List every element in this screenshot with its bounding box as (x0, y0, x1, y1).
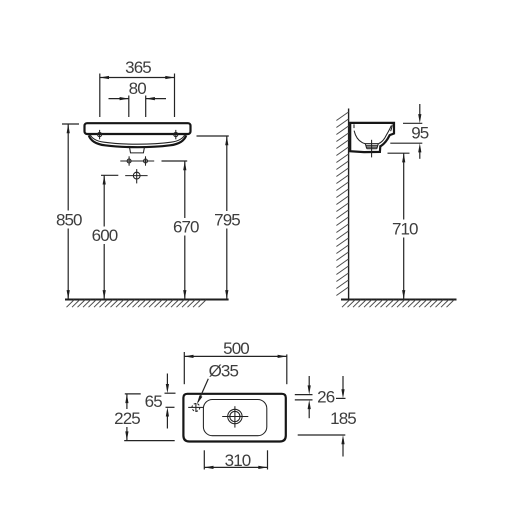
dimension 500 (184, 339, 286, 384)
left fixing hole (front) (98, 130, 102, 139)
svg-text:65: 65 (145, 392, 163, 411)
svg-text:365: 365 (125, 58, 151, 77)
dimension 365 (100, 58, 175, 117)
basin rim (front) (85, 123, 191, 134)
right fixing hole (front) (174, 130, 178, 139)
label Ø35 with leader (197, 361, 239, 404)
dimension 80 (109, 79, 167, 117)
dimension 185 (298, 376, 357, 457)
svg-text:26: 26 (317, 387, 335, 406)
dimension 850 (56, 124, 82, 299)
bowl inner rim (plan) (203, 400, 266, 436)
bowl inner edge (front) (90, 135, 184, 144)
rim inner right edge (side) (391, 124, 393, 131)
svg-text:310: 310 (225, 451, 251, 470)
overflow holes pair (front) (120, 156, 154, 165)
centerline (side drain) (371, 140, 373, 158)
wall line (side) (348, 109, 350, 300)
svg-text:670: 670 (173, 218, 199, 237)
svg-text:600: 600 (92, 226, 118, 245)
drain trap (front) (130, 147, 145, 153)
basin rim inner edge near wall (side) (353, 124, 355, 128)
drain hole (front) (125, 169, 147, 183)
bowl inner curve right (side) (378, 126, 391, 144)
dimension 310 (204, 450, 267, 470)
wall hatching (side) (336, 112, 348, 296)
basin profile outline (side) (350, 123, 394, 152)
dimension 600 (92, 175, 119, 299)
dimension 26 (295, 376, 335, 418)
dimension 795 (197, 136, 241, 299)
basin outer rim (plan) (183, 394, 285, 442)
svg-text:795: 795 (214, 211, 240, 230)
svg-text:Ø35: Ø35 (209, 361, 239, 380)
svg-text:95: 95 (411, 124, 429, 143)
svg-text:225: 225 (114, 409, 140, 428)
svg-text:80: 80 (129, 79, 147, 98)
floor hatching (front) (67, 300, 207, 307)
floor line (side) (341, 299, 457, 301)
dimension 95 (390, 104, 428, 159)
drain detail (side) (365, 144, 378, 149)
svg-text:710: 710 (392, 219, 418, 238)
svg-text:185: 185 (330, 409, 356, 428)
dimension 670 (162, 161, 200, 299)
dimension 710 (388, 153, 419, 299)
drain hole (plan) (222, 406, 248, 427)
bowl outer silhouette (front) (89, 135, 186, 147)
dimension 225 (114, 394, 175, 441)
bowl inner curve left (side) (354, 131, 378, 144)
svg-text:500: 500 (223, 339, 249, 358)
svg-text:850: 850 (56, 210, 82, 229)
tap hole dashed circle (plan) (188, 403, 203, 412)
floor hatching (side) (342, 300, 454, 307)
dimension 65 (145, 374, 176, 429)
floor line (front) (65, 299, 229, 301)
